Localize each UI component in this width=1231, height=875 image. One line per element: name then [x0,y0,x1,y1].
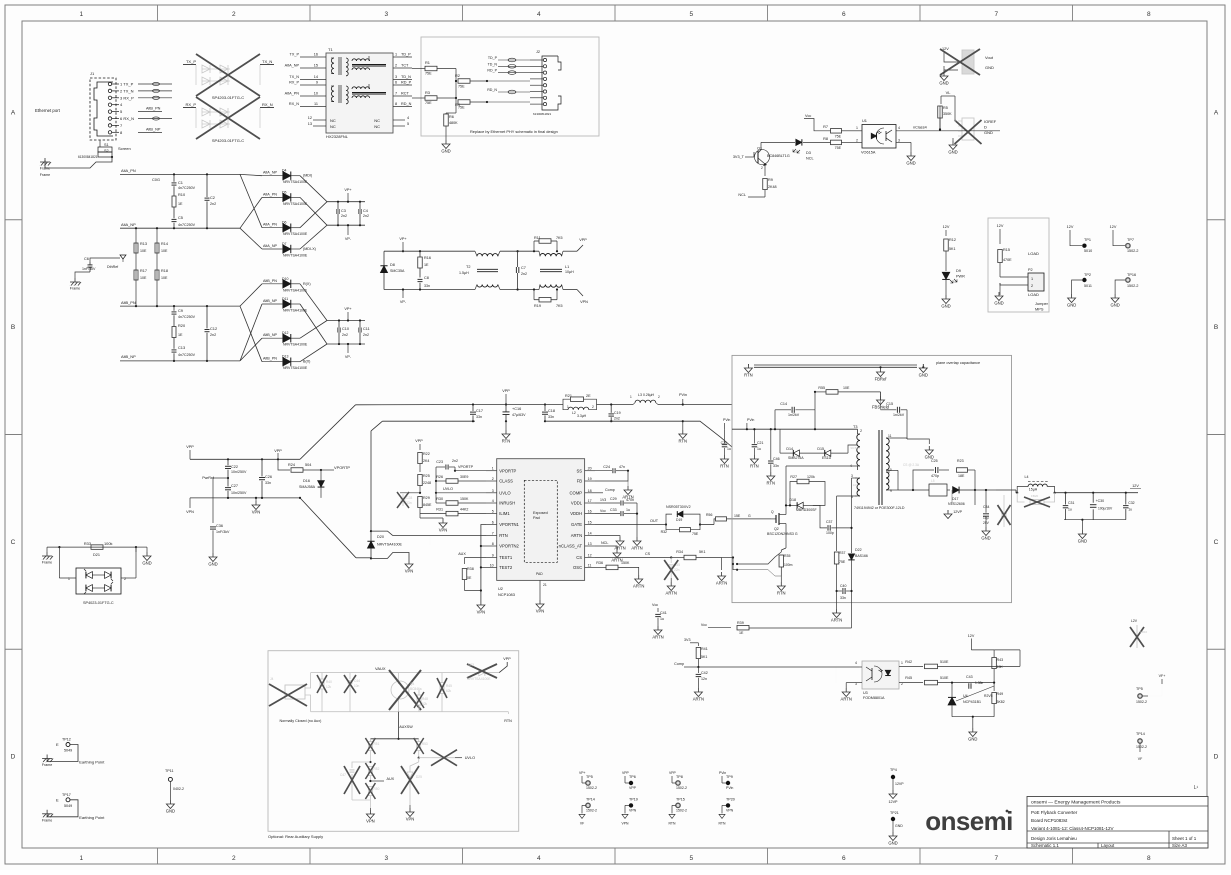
svg-text:ARTN: ARTN [841,697,852,702]
svg-text:D14: D14 [786,447,793,451]
svg-text:R5: R5 [943,106,948,110]
svg-text:NCL: NCL [738,193,746,197]
svg-text:17: 17 [588,499,592,503]
svg-text:2K4: 2K4 [423,459,429,463]
svg-text:10n/250V: 10n/250V [231,491,247,495]
svg-text:VF: VF [580,821,584,825]
svg-text:510E: 510E [940,660,949,664]
svg-text:2n2: 2n2 [341,214,347,218]
svg-text:RD_N: RD_N [487,88,497,92]
svg-text:12V: 12V [943,225,950,229]
svg-text:L3: L3 [638,393,642,397]
svg-text:RTN: RTN [777,591,786,596]
svg-text:Comp: Comp [605,488,615,492]
svg-text:TP2: TP2 [1084,273,1091,277]
svg-text:(MDI-X): (MDI-X) [303,247,316,251]
svg-text:RTN: RTN [744,373,753,378]
svg-text:Comp: Comp [674,662,684,666]
svg-text:C43: C43 [966,675,973,679]
svg-text:GND: GND [939,81,948,86]
svg-text:13: 13 [588,542,592,546]
svg-text:ARTN: ARTN [633,584,644,589]
svg-text:R14: R14 [161,242,168,246]
svg-text:VPN: VPN [477,610,486,615]
svg-text:1n/2kV: 1n/2kV [893,413,905,417]
svg-text:Exposed: Exposed [533,511,548,515]
svg-text:R42: R42 [905,660,912,664]
svg-text:R21: R21 [565,394,572,398]
svg-text:NCP431B1: NCP431B1 [963,700,981,704]
svg-text:Design Joris Lemahieu: Design Joris Lemahieu [1031,836,1077,841]
svg-text:Vout: Vout [985,55,994,60]
svg-text:IOREF: IOREF [984,119,997,124]
svg-text:AUX: AUX [458,552,466,556]
svg-text:TP9: TP9 [726,775,733,779]
svg-text:onsemi: onsemi [925,806,1012,836]
svg-text:NRVTSA4100E: NRVTSA4100E [283,232,308,236]
svg-text:C10: C10 [342,327,349,331]
svg-text:D23: D23 [468,663,474,667]
svg-text:33n: 33n [773,464,779,468]
svg-text:D: D [984,125,987,130]
svg-text:PVin: PVin [679,393,687,397]
svg-text:Frame: Frame [42,763,52,767]
svg-text:ARTN: ARTN [693,697,704,702]
svg-text:E: E [56,797,59,802]
svg-text:C44: C44 [354,679,360,683]
svg-text:Earthing Point: Earthing Point [79,815,105,820]
svg-text:2: 2 [124,577,126,581]
svg-text:350K: 350K [943,112,952,116]
svg-text:GND: GND [906,161,915,166]
svg-text:D17: D17 [952,497,958,501]
svg-text:B(X): B(X) [303,360,310,364]
svg-text:R(X): R(X) [303,282,311,286]
svg-text:B: B [11,324,15,331]
svg-text:R9: R9 [768,178,773,182]
svg-text:12V: 12V [968,634,975,638]
svg-text:CLASS: CLASS [499,479,513,484]
svg-text:LOAD: LOAD [1028,292,1039,297]
svg-text:1502-2: 1502-2 [676,808,687,812]
svg-text:Frame: Frame [70,287,80,291]
svg-text:SP4203-01FTG-C: SP4203-01FTG-C [212,95,244,100]
svg-text:VPN: VPN [536,609,545,614]
svg-text:D25: D25 [416,775,422,779]
svg-text:1: 1 [492,467,494,471]
svg-text:3: 3 [384,11,388,18]
svg-text:R23: R23 [957,459,964,463]
svg-text:FB: FB [577,479,583,484]
svg-text:R50: R50 [374,787,380,791]
svg-text:5: 5 [689,11,693,18]
svg-text:C4: C4 [363,209,368,213]
svg-text:845E: 845E [423,503,432,507]
svg-text:2K48: 2K48 [768,185,777,189]
svg-text:VPN: VPN [405,569,414,574]
svg-text:P2: P2 [1028,268,1033,272]
svg-text:1nF/3kV: 1nF/3kV [82,267,96,271]
svg-text:VP+: VP+ [344,188,352,192]
svg-text:7: 7 [994,855,998,862]
svg-text:150K: 150K [621,561,630,565]
svg-text:12V: 12V [997,224,1004,228]
svg-text:PAD: PAD [536,572,543,576]
svg-text:75E: 75E [692,532,699,536]
svg-text:R15: R15 [1003,248,1010,252]
svg-text:RCT: RCT [401,92,409,96]
svg-text:RTN: RTN [767,481,776,486]
svg-text:R35: R35 [784,554,790,558]
svg-text:TX_N: TX_N [262,59,272,64]
svg-text:8: 8 [492,542,494,546]
svg-text:12VP: 12VP [953,510,962,514]
svg-text:Optional: Rear Auxiliary Suppl: Optional: Rear Auxiliary Supply [268,834,323,839]
svg-text:75E: 75E [835,146,842,150]
svg-text:VPORTN2: VPORTN2 [499,544,519,549]
svg-text:504: 504 [305,463,311,467]
svg-text:5: 5 [407,122,409,126]
svg-text:nCLASS_AT: nCLASS_AT [559,544,583,549]
svg-text:NRVTSA4100E: NRVTSA4100E [283,202,308,206]
svg-text:C: C [11,539,16,546]
svg-text:6: 6 [492,521,494,525]
svg-text:47n: 47n [619,465,625,469]
svg-text:Q2: Q2 [774,527,779,531]
svg-text:2E: 2E [586,394,591,398]
svg-text:GATE: GATE [571,522,582,527]
svg-text:RD_P: RD_P [401,81,412,85]
svg-text:8: 8 [395,102,397,106]
svg-text:1u: 1u [727,447,731,451]
svg-text:Frame: Frame [40,167,50,171]
svg-text:TX_P: TX_P [186,59,196,64]
svg-text:RTN: RTN [720,464,729,469]
svg-text:TP5: TP5 [1136,687,1143,691]
svg-text:Size A3: Size A3 [1172,843,1187,848]
svg-text:1: 1 [79,11,83,18]
svg-text:NC: NC [330,118,336,123]
svg-text:U3: U3 [863,691,868,695]
svg-text:VPORTP: VPORTP [334,465,350,470]
svg-text:TP20: TP20 [726,797,735,801]
svg-text:VP+: VP+ [399,237,407,241]
svg-text:22n: 22n [674,568,680,572]
svg-text:RTN: RTN [719,821,726,825]
svg-text:AltA_NP: AltA_NP [263,244,277,248]
svg-text:R13: R13 [140,242,147,246]
svg-text:D8: D8 [390,263,395,267]
svg-text:TP8: TP8 [676,775,683,779]
svg-text:3K82: 3K82 [997,700,1005,704]
svg-text:RTN: RTN [499,533,508,538]
svg-text:75E: 75E [458,85,465,89]
svg-text:TP5: TP5 [586,775,593,779]
svg-text:G: G [748,514,751,518]
svg-text:C26: C26 [265,475,272,479]
svg-text:75E: 75E [458,106,465,110]
svg-text:Sheet 1 of 1: Sheet 1 of 1 [1172,836,1197,841]
svg-text:100p: 100p [826,531,834,535]
svg-text:PVin: PVin [723,418,730,422]
svg-text:C1: C1 [178,180,183,185]
svg-text:AltB_NP: AltB_NP [121,354,136,359]
svg-text:R19: R19 [534,304,541,308]
svg-text:UVLO: UVLO [465,756,475,760]
svg-text:C2: C2 [210,195,215,200]
svg-text:A: A [11,109,16,116]
svg-text:LOAD: LOAD [1028,251,1039,256]
svg-text:75E: 75E [835,135,842,139]
svg-text:C32: C32 [1128,501,1134,505]
svg-text:1E: 1E [178,333,183,337]
svg-text:R41: R41 [701,647,708,651]
svg-text:Q1: Q1 [757,147,762,151]
svg-text:VPN: VPN [186,510,194,514]
svg-text:S1: S1 [104,143,109,147]
svg-text:18E: 18E [958,474,965,478]
svg-text:C8: C8 [424,276,429,280]
svg-text:FB20: FB20 [1031,494,1039,498]
svg-text:13: 13 [308,122,312,126]
svg-text:CS @ 2.3A: CS @ 2.3A [903,463,920,467]
svg-text:BSC12DN20NS3 G: BSC12DN20NS3 G [767,532,798,536]
svg-text:NC: NC [330,124,336,129]
svg-text:RX_P: RX_P [289,81,299,85]
svg-text:3: 3 [384,855,388,862]
svg-text:VL: VL [946,90,952,95]
svg-text:6: 6 [842,11,846,18]
svg-text:C15: C15 [886,402,893,406]
svg-text:TD_N: TD_N [488,62,498,66]
svg-text:FBRef: FBRef [875,377,888,382]
svg-text:VPN: VPN [580,300,588,304]
svg-text:AUX: AUX [387,777,395,781]
svg-text:2n2: 2n2 [210,202,216,206]
svg-text:nClass4: nClass4 [913,126,927,130]
svg-text:ARTN: ARTN [652,635,663,640]
svg-text:9: 9 [492,554,494,558]
svg-text:T1: T1 [328,47,333,52]
svg-text:GND: GND [888,841,897,846]
svg-text:VPP: VPP [186,445,194,449]
svg-text:HX2328FNL: HX2328FNL [326,134,349,139]
svg-text:VO615A: VO615A [861,151,876,155]
svg-text:75E: 75E [425,72,432,76]
svg-text:T3: T3 [853,425,857,429]
svg-text:R24: R24 [288,463,295,467]
svg-text:R51: R51 [374,742,380,746]
svg-text:1E: 1E [739,631,744,635]
svg-text:R40: R40 [326,680,332,684]
svg-text:GND: GND [968,737,977,742]
svg-text:VPN: VPN [439,528,448,533]
svg-text:C18: C18 [548,409,555,413]
svg-text:D6: D6 [282,221,287,225]
svg-text:1u: 1u [660,617,664,621]
svg-text:16: 16 [588,510,592,514]
svg-text:RD_P: RD_P [487,69,497,73]
svg-text:4n7C250V: 4n7C250V [178,315,196,319]
svg-text:ARTN: ARTN [631,546,642,551]
svg-text:R49: R49 [997,692,1004,696]
svg-text:2n2: 2n2 [614,417,620,421]
svg-text:TEST2: TEST2 [499,565,513,570]
svg-text:SP4203-01FTG-C: SP4203-01FTG-C [212,138,244,143]
svg-text:R36: R36 [596,561,603,565]
svg-text:510E: 510E [940,676,949,680]
svg-text:VPP: VPP [629,786,637,790]
svg-text:R8: R8 [823,137,828,141]
svg-text:J4: J4 [270,677,274,681]
svg-text:75E: 75E [425,101,432,105]
svg-text:NRVTSA4100E: NRVTSA4100E [467,677,491,681]
svg-text:GND: GND [948,150,957,155]
svg-text:5K1: 5K1 [701,655,707,659]
svg-text:1502-2: 1502-2 [1136,745,1147,749]
svg-text:9: 9 [890,489,892,493]
svg-text:R45: R45 [905,676,912,680]
svg-text:AltA_PN: AltA_PN [121,168,136,173]
svg-text:VPN: VPN [622,821,630,825]
svg-text:T2: T2 [466,265,470,269]
svg-text:1: 1 [856,126,858,130]
svg-text:FODM8801A: FODM8801A [863,696,885,700]
svg-text:CS: CS [645,552,651,556]
svg-text:Schematic 1.1: Schematic 1.1 [1031,843,1059,848]
svg-text:RD_N: RD_N [401,102,412,106]
svg-text:C37: C37 [826,520,832,524]
svg-text:(MDI): (MDI) [303,174,312,178]
svg-text:75E: 75E [839,560,846,564]
svg-text:33n: 33n [265,481,271,485]
svg-text:D10: D10 [282,277,288,281]
svg-text:CS: CS [576,555,582,560]
svg-text:U2: U2 [498,586,503,591]
svg-text:NRVTSA4100E: NRVTSA4100E [283,254,308,258]
svg-text:MPS: MPS [1035,307,1044,312]
svg-text:TP1: TP1 [1084,238,1091,242]
svg-text:Replace by Ethernet PHY schema: Replace by Ethernet PHY schematic in fin… [470,129,558,134]
svg-text:1502-2: 1502-2 [586,786,597,790]
svg-text:BC846BLT1G: BC846BLT1G [767,154,790,158]
svg-text:Q4: Q4 [410,682,414,686]
svg-text:TCT: TCT [401,64,409,68]
svg-text:R31: R31 [436,508,443,512]
svg-text:8: 8 [1147,11,1151,18]
svg-text:61300841821: 61300841821 [78,155,98,159]
svg-text:R27: R27 [790,475,797,479]
svg-text:10µH: 10µH [565,270,574,274]
svg-text:4n7C250V: 4n7C250V [178,186,196,190]
svg-text:D15: D15 [817,447,824,451]
svg-text:12V: 12V [1110,225,1117,229]
svg-text:2n2: 2n2 [342,333,348,337]
svg-text:PoE Flyback Converter: PoE Flyback Converter [1031,810,1078,815]
svg-text:S2: S2 [104,149,109,153]
svg-text:TP4: TP4 [890,768,897,772]
svg-text:MBRD300SF: MBRD300SF [796,508,817,512]
svg-text:7: 7 [395,92,397,96]
svg-text:12k: 12k [326,685,332,689]
svg-text:E: E [56,742,59,747]
svg-text:2 TX_N: 2 TX_N [120,88,134,93]
svg-text:0.26µH: 0.26µH [643,393,655,397]
svg-text:2: 2 [592,405,594,409]
svg-text:C14: C14 [780,402,787,406]
svg-text:GND: GND [1110,303,1119,308]
svg-text:R55: R55 [818,386,825,390]
svg-text:R2: R2 [455,73,460,78]
svg-text:VPP: VPP [502,389,510,393]
svg-text:AltA_PN: AltA_PN [263,192,277,196]
svg-text:5K1: 5K1 [949,247,956,251]
svg-text:1.5µH: 1.5µH [459,271,469,275]
svg-text:AltA_NP: AltA_NP [285,64,300,68]
svg-text:PVin: PVin [747,418,754,422]
svg-text:33n: 33n [548,415,554,419]
svg-text:C36: C36 [216,524,223,528]
svg-text:C46: C46 [773,457,780,461]
svg-text:R37: R37 [839,551,845,555]
svg-text:NC: NC [374,124,380,129]
svg-text:10E: 10E [161,249,168,253]
svg-text:R6: R6 [449,115,454,119]
svg-text:C24: C24 [603,465,610,469]
svg-text:100m: 100m [784,563,793,567]
svg-text:1: 1 [1031,277,1033,281]
svg-text:GND: GND [919,373,928,378]
svg-text:4: 4 [537,855,541,862]
svg-text:Normally Closed (no Aux): Normally Closed (no Aux) [280,719,322,723]
svg-text:1V3: 1V3 [600,498,606,502]
svg-text:4: 4 [492,499,494,503]
svg-text:12n: 12n [701,677,707,681]
svg-text:2n2: 2n2 [521,272,527,276]
svg-text:AltB_NP: AltB_NP [146,127,161,131]
svg-text:1u: 1u [757,447,761,451]
svg-text:VPORTN1: VPORTN1 [499,522,519,527]
svg-text:1502-2: 1502-2 [586,808,597,812]
svg-text:NCL: NCL [601,541,608,545]
svg-text:L1: L1 [565,265,569,269]
svg-text:L4: L4 [1025,475,1029,479]
svg-text:10n/250V: 10n/250V [231,470,247,474]
svg-text:R26: R26 [436,475,443,479]
svg-text:VP-: VP- [345,355,352,359]
svg-text:VAUX: VAUX [375,666,386,671]
svg-text:ARTN: ARTN [571,533,582,538]
svg-text:R34: R34 [676,550,683,554]
svg-text:SP4023-01FTG-C: SP4023-01FTG-C [83,601,114,605]
svg-text:AltB_NP: AltB_NP [263,299,277,303]
svg-text:1.38n: 1.38n [975,681,983,685]
svg-text:L2V: L2V [1131,619,1138,623]
svg-text:R30: R30 [436,497,443,501]
svg-text:4: 4 [855,661,857,665]
svg-text:TP12: TP12 [62,738,71,742]
svg-text:6 RX_N: 6 RX_N [120,116,134,121]
svg-text:R17: R17 [140,269,147,273]
svg-text:1: 1 [630,395,632,399]
svg-text:11: 11 [588,563,592,567]
svg-text:4: 4 [898,126,900,130]
svg-text:AltB_PN: AltB_PN [263,357,277,361]
svg-text:7: 7 [994,11,998,18]
svg-text:3.3µH: 3.3µH [577,414,587,418]
svg-text:VDDL: VDDL [571,501,583,506]
svg-text:C19: C19 [614,411,621,415]
